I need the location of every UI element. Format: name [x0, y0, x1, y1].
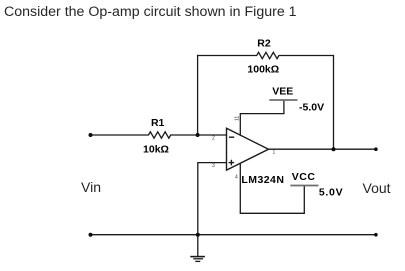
svg-text:Vin: Vin [81, 179, 101, 195]
svg-text:11: 11 [235, 116, 241, 121]
svg-text:VEE: VEE [272, 86, 293, 98]
svg-text:10kΩ: 10kΩ [143, 143, 169, 155]
svg-text:100kΩ: 100kΩ [247, 63, 279, 75]
svg-text:1: 1 [273, 150, 276, 156]
svg-text:4: 4 [235, 175, 238, 181]
svg-text:R1: R1 [151, 117, 165, 129]
svg-text:VCC: VCC [292, 171, 316, 183]
svg-text:-5.0V: -5.0V [299, 102, 324, 114]
svg-text:2: 2 [212, 136, 215, 142]
svg-text:3: 3 [212, 163, 215, 169]
svg-text:LM324N: LM324N [241, 174, 284, 186]
svg-text:Vout: Vout [363, 180, 391, 196]
svg-text:R2: R2 [257, 37, 271, 49]
svg-text:5.0V: 5.0V [319, 187, 343, 199]
